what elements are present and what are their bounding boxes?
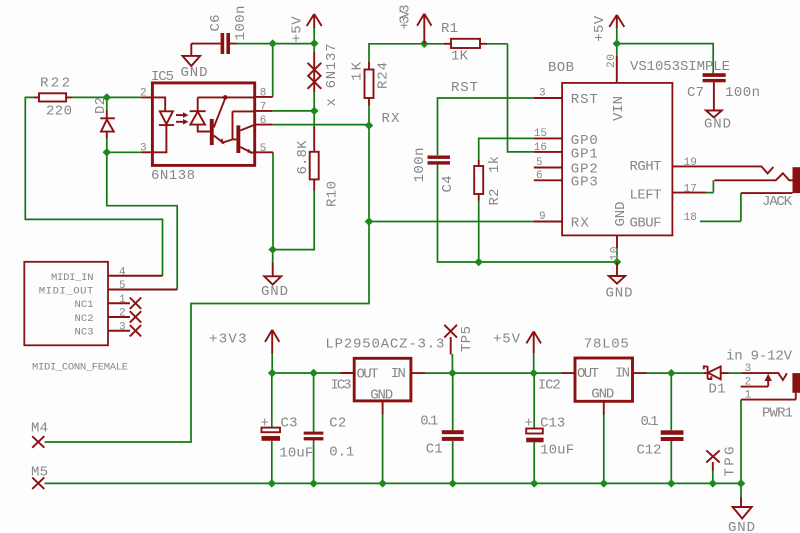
svg-text:C6: C6 xyxy=(208,15,224,32)
svg-text:LP2950ACZ-3.3: LP2950ACZ-3.3 xyxy=(325,336,444,352)
junction at 424.3,39.6 xyxy=(420,40,429,48)
capacitor C3 polarized xyxy=(261,416,314,462)
svg-text:2: 2 xyxy=(119,308,126,320)
svg-text:JACK: JACK xyxy=(762,194,793,210)
svg-text:OUT: OUT xyxy=(577,366,599,382)
svg-text:R22: R22 xyxy=(40,76,70,92)
svg-text:NC2: NC2 xyxy=(75,313,94,325)
svg-text:TP5: TP5 xyxy=(459,326,475,352)
test point TP5 xyxy=(444,325,475,355)
svg-text:+5V: +5V xyxy=(592,15,608,42)
svg-text:IC3: IC3 xyxy=(331,378,352,394)
svg-text:MIDI_CONN_FEMALE: MIDI_CONN_FEMALE xyxy=(32,362,128,374)
junction at 382.6,479.2 xyxy=(378,479,387,487)
svg-text:RX: RX xyxy=(571,215,590,231)
capacitor C2 xyxy=(304,415,355,460)
junction at 369,217.3 xyxy=(365,217,374,225)
svg-text:10uF: 10uF xyxy=(540,442,574,458)
connector MIDI_CONN_FEMALE xyxy=(24,262,177,374)
resistor R1 xyxy=(441,21,487,65)
wire net RX (IC5 pin6, R24, BOB pin9, M4) xyxy=(45,105,534,442)
junction at 272.7,245.4 xyxy=(268,245,277,253)
svg-text:GND: GND xyxy=(606,286,633,302)
svg-text:IC2: IC2 xyxy=(538,378,561,394)
supply +3V3 symbol (top) xyxy=(398,5,432,44)
no-connect marks x 6N137 xyxy=(308,44,341,107)
svg-text:3: 3 xyxy=(745,363,752,375)
svg-text:TPG: TPG xyxy=(723,447,739,477)
svg-text:3: 3 xyxy=(539,88,546,100)
svg-text:GND: GND xyxy=(261,284,288,300)
junction at 272.7,39.4 xyxy=(268,39,277,47)
svg-text:0.1: 0.1 xyxy=(329,445,354,461)
supply +5V symbol at BOB xyxy=(592,15,624,42)
svg-text:17: 17 xyxy=(684,184,697,196)
svg-text:C7: C7 xyxy=(687,85,704,101)
wire net +5V (C6 to IC5 pin8 and crossed stub) xyxy=(236,27,319,111)
svg-text:1: 1 xyxy=(119,294,126,306)
wire net +5V rail (IC3 IN, TP5, C1, C13, IC2 OUT) xyxy=(425,352,562,430)
module BOB VS1053SIMPLE xyxy=(534,54,730,261)
svg-text:BOB: BOB xyxy=(548,60,574,76)
svg-text:10: 10 xyxy=(610,247,622,261)
wire R2 to BOB pin15 (GP0) xyxy=(479,138,534,160)
svg-text:100n: 100n xyxy=(725,85,760,101)
wire net LEFT (BOB pin17 to jack ring) xyxy=(705,180,713,192)
svg-text:3: 3 xyxy=(119,321,126,333)
svg-text:R24: R24 xyxy=(376,62,392,89)
junction at 271.8,479.2 xyxy=(268,479,277,487)
wire net Vin (IC2 IN, C12, D1) xyxy=(646,369,741,430)
svg-text:NC1: NC1 xyxy=(75,299,94,311)
wire net +3V3 rail (IC3 OUT, C3, C2) xyxy=(268,352,341,432)
regulator IC3 LP2950ACZ-3.3 xyxy=(325,336,444,414)
capacitor C1 xyxy=(420,414,463,458)
svg-text:GND: GND xyxy=(704,116,731,132)
svg-text:RST: RST xyxy=(451,80,478,96)
capacitor C4 xyxy=(412,148,456,193)
svg-text:x 6N137: x 6N137 xyxy=(324,44,340,107)
junction at 671.3,368.9 xyxy=(667,369,676,377)
junction at 617,257.8 xyxy=(613,258,622,266)
wire net MIDI_OUT (D2/IC5 pin3 to MIDI pin5) xyxy=(103,137,178,290)
svg-text:100n: 100n xyxy=(412,148,428,183)
resistor R2 xyxy=(474,156,503,206)
svg-text:C4: C4 xyxy=(440,176,456,193)
junction at 671.3,479.2 xyxy=(667,479,676,487)
svg-text:VIN: VIN xyxy=(611,96,627,121)
svg-text:0.1: 0.1 xyxy=(420,414,438,430)
svg-text:GBUF: GBUF xyxy=(630,215,662,231)
supply +5V symbol (left) xyxy=(290,14,322,43)
wire net +5V at BOB VIN and C7 xyxy=(613,28,714,74)
svg-text:2: 2 xyxy=(140,88,147,100)
junction at 106.8,148.1 xyxy=(103,148,112,156)
test point TPG xyxy=(706,447,738,477)
junction at 272.2,368.8 xyxy=(268,369,277,377)
junction at 106.8,93.2 xyxy=(103,93,112,101)
wire R1 to BOB pin16 (GP1) xyxy=(508,44,534,152)
svg-text:+5V: +5V xyxy=(493,331,521,347)
supply +3V3 symbol (bottom) xyxy=(209,330,279,353)
wire R22/D2/IC5 pin2 node xyxy=(71,93,141,112)
svg-text:6.8K: 6.8K xyxy=(295,140,311,175)
resistor R22 xyxy=(34,76,72,120)
svg-text:IN: IN xyxy=(615,366,630,382)
breakout pin M5 xyxy=(31,465,48,489)
audio connector JACK xyxy=(672,166,800,209)
svg-text:GND: GND xyxy=(613,202,629,227)
ground symbol at BOB pin10 xyxy=(606,262,633,302)
junction at 314.2,106.7 xyxy=(310,107,319,115)
svg-text:IC5: IC5 xyxy=(151,69,174,85)
svg-text:in 9-12V: in 9-12V xyxy=(726,349,793,365)
svg-text:15: 15 xyxy=(534,128,547,140)
svg-text:0.1: 0.1 xyxy=(641,414,659,430)
svg-text:GP1: GP1 xyxy=(571,146,598,162)
wire net GND (C4, R2, BOB pin10) xyxy=(438,165,622,267)
ground symbol at C6 xyxy=(181,44,208,81)
diode D2 xyxy=(93,97,115,139)
supply +5V symbol (rail) xyxy=(493,331,541,353)
svg-text:1K: 1K xyxy=(451,49,469,65)
junction at 616.8,39.4 xyxy=(613,39,622,47)
svg-text:220: 220 xyxy=(46,104,72,120)
wire net GBUF (BOB pin18 to jack sleeve) xyxy=(700,193,741,221)
svg-text:GND: GND xyxy=(728,520,755,533)
svg-text:20: 20 xyxy=(606,54,618,68)
wire net RST (C4, BOB pin3) xyxy=(438,98,534,155)
svg-text:1K: 1K xyxy=(350,61,366,81)
ground symbol at C7 xyxy=(704,82,731,132)
svg-text:5: 5 xyxy=(536,157,543,169)
capacitor C6 xyxy=(191,6,249,55)
svg-text:2: 2 xyxy=(745,376,752,388)
svg-text:+5V: +5V xyxy=(290,16,306,43)
junction at 452.7,479.2 xyxy=(448,479,457,487)
svg-text:6: 6 xyxy=(536,170,543,182)
junction at 313.6,368.8 xyxy=(309,369,318,377)
svg-text:MIDI_OUT: MIDI_OUT xyxy=(39,285,94,297)
svg-text:D2: D2 xyxy=(93,97,109,114)
svg-text:6N138: 6N138 xyxy=(151,168,195,184)
wire IC5 pin5 / R10 GND node xyxy=(268,152,314,263)
junction at 741,479.2 xyxy=(737,479,746,487)
svg-text:+3V3: +3V3 xyxy=(209,331,247,347)
svg-text:1k: 1k xyxy=(487,156,503,173)
svg-text:D1: D1 xyxy=(709,381,726,397)
junction at 712.8,479.2 xyxy=(709,479,718,487)
svg-text:4: 4 xyxy=(119,266,126,278)
regulator IC2 78L05 xyxy=(538,336,647,414)
junction at 603.8,479.2 xyxy=(600,479,609,487)
breakout pin M4 xyxy=(31,420,48,447)
optocoupler IC5 6N138 xyxy=(140,69,273,184)
svg-text:8: 8 xyxy=(260,88,267,100)
svg-text:6: 6 xyxy=(260,115,267,127)
svg-text:1: 1 xyxy=(745,389,752,401)
svg-text:C2: C2 xyxy=(329,415,346,431)
wire net MIDI_IN (R22 to MIDI pin4) xyxy=(25,97,162,275)
svg-text:LEFT: LEFT xyxy=(630,188,662,204)
svg-text:C13: C13 xyxy=(540,415,565,431)
svg-text:78L05: 78L05 xyxy=(584,336,629,352)
junction at 534.2,479.2 xyxy=(530,479,539,487)
ground symbol at IC5 pin5 xyxy=(261,263,288,300)
svg-text:3: 3 xyxy=(140,143,147,155)
svg-text:OUT: OUT xyxy=(357,367,379,383)
svg-text:MIDI_IN: MIDI_IN xyxy=(51,272,94,284)
svg-text:16: 16 xyxy=(534,142,547,154)
svg-text:VS1053SIMPLE: VS1053SIMPLE xyxy=(630,59,730,75)
svg-text:R1: R1 xyxy=(441,21,458,37)
junction at 313.6,479.2 xyxy=(309,479,318,487)
wire net GND rail (M5 to PWR1) xyxy=(45,400,746,497)
svg-text:GND: GND xyxy=(181,65,208,81)
ground symbol at PWR1 xyxy=(728,497,755,533)
svg-text:NC3: NC3 xyxy=(75,327,94,339)
svg-text:RGHT: RGHT xyxy=(630,159,662,175)
wire net +3V3 top (R24, R1) xyxy=(369,40,508,62)
capacitor C13 polarized xyxy=(525,415,575,458)
svg-text:PWR1: PWR1 xyxy=(762,406,793,422)
svg-text:M4: M4 xyxy=(31,420,48,436)
svg-text:7: 7 xyxy=(260,102,267,114)
svg-text:R10: R10 xyxy=(325,181,341,207)
svg-text:18: 18 xyxy=(684,212,697,224)
junction at 533.7,368.9 xyxy=(529,369,538,377)
svg-text:10uF: 10uF xyxy=(279,445,313,461)
junction at 314.2,39.2 xyxy=(310,39,319,47)
svg-text:9: 9 xyxy=(539,211,546,223)
power connector PWR1 xyxy=(726,349,800,422)
svg-text:C1: C1 xyxy=(426,442,443,458)
junction at 478.7,257.8 xyxy=(474,258,483,266)
svg-text:+3V3: +3V3 xyxy=(398,5,414,30)
junction at 369,121.3 xyxy=(365,121,374,129)
junction at 452.4,368.9 xyxy=(448,369,457,377)
capacitor C12 xyxy=(637,414,684,459)
svg-text:IN: IN xyxy=(391,366,406,382)
capacitor C7 xyxy=(687,73,760,101)
svg-text:GND: GND xyxy=(591,387,614,403)
svg-text:GP3: GP3 xyxy=(571,175,598,191)
svg-text:C3: C3 xyxy=(281,416,298,432)
diode D1 schottky xyxy=(704,366,729,397)
resistor R24 xyxy=(350,61,392,105)
svg-text:100n: 100n xyxy=(233,6,249,41)
svg-text:RX: RX xyxy=(382,111,401,127)
svg-text:R2: R2 xyxy=(487,189,503,206)
svg-text:5: 5 xyxy=(119,280,126,292)
svg-text:RST: RST xyxy=(571,92,598,108)
svg-text:5: 5 xyxy=(260,143,267,155)
wire IC5 pin7 to R10 node xyxy=(273,107,319,128)
resistor R10 xyxy=(295,127,341,207)
svg-text:C12: C12 xyxy=(637,443,662,459)
